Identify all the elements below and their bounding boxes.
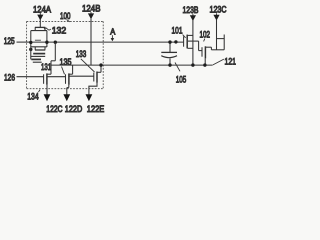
transistor T2 (122D) xyxy=(66,65,73,95)
capacitor 105 xyxy=(161,42,177,65)
wire 101 to gate 102 xyxy=(199,41,202,51)
transistor 101 xyxy=(184,35,199,49)
terminal 122D xyxy=(63,94,82,114)
label 102 xyxy=(200,29,211,42)
svg-text:102: 102 xyxy=(200,29,211,40)
svg-text:124A: 124A xyxy=(33,4,52,15)
label 132 xyxy=(44,25,66,36)
wire 126 input xyxy=(4,71,94,82)
label 105 xyxy=(175,63,186,85)
svg-text:122D: 122D xyxy=(65,103,83,114)
svg-text:134: 134 xyxy=(27,90,39,101)
svg-text:124B: 124B xyxy=(82,2,101,13)
svg-text:105: 105 xyxy=(176,74,187,85)
dashed box 100 xyxy=(27,21,104,88)
terminal 122C xyxy=(44,94,63,114)
svg-text:100: 100 xyxy=(60,10,71,21)
terminal 124B xyxy=(82,2,101,65)
svg-text:131: 131 xyxy=(41,61,51,72)
svg-text:133: 133 xyxy=(76,48,87,59)
junction dot T3 rail xyxy=(99,63,102,66)
node A marker xyxy=(110,27,115,42)
svg-text:126: 126 xyxy=(4,71,15,82)
wire 125 input xyxy=(4,35,31,46)
substrate dashed line 134 xyxy=(27,88,104,90)
svg-text:123B: 123B xyxy=(183,4,199,15)
terminal 123C xyxy=(210,3,227,49)
svg-text:101: 101 xyxy=(172,25,183,36)
svg-text:122E: 122E xyxy=(87,103,105,114)
svg-text:123C: 123C xyxy=(210,3,227,14)
terminal 122E xyxy=(86,94,105,114)
junction dot gate 101 xyxy=(174,40,177,43)
transistor 131 upper xyxy=(31,47,45,59)
svg-text:122C: 122C xyxy=(46,103,62,114)
svg-text:132: 132 xyxy=(52,25,66,36)
label 135 xyxy=(60,56,72,75)
transistor T3 (122E) xyxy=(89,65,101,95)
transistor 131 lower xyxy=(31,59,51,72)
label 100 xyxy=(60,10,71,22)
transistor 132 xyxy=(31,27,47,50)
terminal 123B xyxy=(183,4,199,65)
wire node 133 vertical from A xyxy=(47,42,55,74)
transistor T1 (122C) xyxy=(44,73,47,94)
wire main node A horizontal xyxy=(31,41,184,43)
label 133 xyxy=(76,48,95,72)
terminal 124A xyxy=(33,4,52,28)
wire 123C to 102 drain xyxy=(211,35,224,50)
junction dots on node A wire xyxy=(29,41,32,44)
label 101 xyxy=(172,25,186,38)
output 121 xyxy=(213,55,236,66)
label 134 xyxy=(27,90,40,102)
svg-text:135: 135 xyxy=(60,56,72,67)
transistor 102 xyxy=(202,46,211,65)
svg-text:125: 125 xyxy=(4,35,15,46)
svg-text:121: 121 xyxy=(225,55,237,66)
wire node 133 rail xyxy=(51,64,213,66)
junction dot left rail xyxy=(29,48,32,51)
